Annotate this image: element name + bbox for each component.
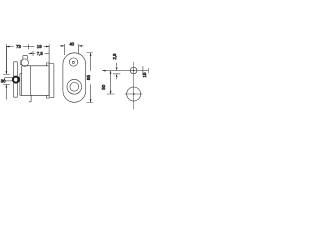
mounting plate edge-on <box>14 62 18 97</box>
screw head circle <box>21 59 28 66</box>
dimension 7.5 sub-dim <box>29 52 49 54</box>
85 down arrow <box>90 99 92 102</box>
ext ticks left dim <box>3 74 10 84</box>
big hole center dot <box>133 93 135 95</box>
50 down arrow <box>110 91 112 94</box>
svg-text:50: 50 <box>101 84 106 90</box>
plate bottom hole outer <box>67 79 82 94</box>
dim 2,9 lower arrow up <box>116 74 118 77</box>
left vertical dimension 30 <box>5 47 7 74</box>
right view centerline <box>133 62 135 109</box>
arrow 7.5 <box>29 53 32 55</box>
main line left arrow <box>102 70 105 72</box>
plate top screw hole <box>69 58 77 66</box>
dimension 40 above plate <box>60 45 84 47</box>
bottom tab <box>29 95 31 102</box>
stud center dot <box>133 70 135 72</box>
flange bottom hook <box>46 95 49 98</box>
svg-text:40: 40 <box>69 41 74 46</box>
plate bottom hole inner <box>70 82 79 91</box>
right view main horizontal line <box>102 70 148 72</box>
dimension line 73/19 top <box>6 46 49 48</box>
down arrow tip at y=74.3 <box>6 71 8 74</box>
extension tick mid x=28.4 <box>27 44 29 49</box>
ext lines of 40 <box>64 44 78 55</box>
lower segment with up arrow <box>5 85 7 100</box>
arrow right-pointing tip x=64.4 <box>61 45 64 47</box>
housing body rectangle <box>20 66 49 96</box>
nut dark ring <box>13 77 19 83</box>
arrow left-pointing tip x=78.7 <box>79 45 82 47</box>
lens flange <box>49 64 54 98</box>
arrow left of 73 dim <box>6 46 9 48</box>
arrow right of 19 dim <box>46 46 49 48</box>
svg-text:7,5: 7,5 <box>37 51 44 56</box>
big hole horizontal centerline <box>125 93 143 95</box>
dim 15 tick <box>142 66 144 75</box>
body left lower step <box>20 74 22 96</box>
extension line right x=49.1 <box>48 44 50 64</box>
dim 50 vertical <box>110 71 112 94</box>
main line right end tick <box>147 68 149 73</box>
dim 2,9 lower short line <box>113 73 120 75</box>
plate top hole center <box>72 61 74 63</box>
svg-text:73: 73 <box>16 44 21 49</box>
flange top hook <box>46 63 49 66</box>
tick 7.5 at x=33 <box>32 51 34 56</box>
50 ext line at circle center <box>107 93 115 95</box>
svg-text:2,9: 2,9 <box>112 53 117 60</box>
dim 2,9 upper line with down arrow <box>116 63 118 67</box>
svg-text:85: 85 <box>86 75 91 81</box>
85 up arrow <box>90 53 92 56</box>
stadium plate front view <box>63 53 86 103</box>
body inner vertical <box>30 66 32 96</box>
svg-text:15: 15 <box>142 72 147 78</box>
screw shaft protruding left <box>5 78 13 81</box>
screw boss above <box>23 56 28 60</box>
85 ext ticks <box>87 53 93 103</box>
stud small circle <box>130 67 137 74</box>
extension line left at x=6.4 <box>5 44 7 73</box>
50 up arrow <box>110 71 112 74</box>
dimension 85 right of plate <box>90 53 92 103</box>
svg-text:19: 19 <box>37 44 42 49</box>
screw head side profile <box>20 61 22 65</box>
big hole circle <box>127 87 141 101</box>
